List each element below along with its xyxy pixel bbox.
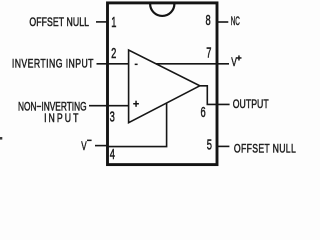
svg-text:NC: NC [231,15,240,29]
svg-text:V: V [81,140,87,154]
wire pin2 to inverting input [97,63,129,65]
svg-text:5: 5 [207,136,212,153]
svg-text:OFFSET NULL: OFFSET NULL [234,142,296,156]
svg-text:OFFSET NULL: OFFSET NULL [29,16,89,30]
crop artifact left edge [0,137,2,140]
wire output apex to pin6 [200,86,230,105]
wire pin4 V- to triangle bottom [107,103,167,147]
svg-text:8: 8 [206,12,211,29]
svg-text:2: 2 [111,45,116,62]
svg-text:OUTPUT: OUTPUT [233,97,269,111]
wire pin8 stub [216,21,228,23]
notch (index mark semicircle) [150,4,174,16]
svg-text:1: 1 [111,14,116,31]
IC body U1 (DIP-8 outline) [108,3,218,165]
inverting input marker (minus) [135,64,138,66]
svg-text:3: 3 [110,108,115,125]
svg-text:7: 7 [206,45,211,62]
non-inverting input marker (plus) [133,103,139,105]
svg-text:4: 4 [110,146,115,163]
svg-text:INVERTING INPUT: INVERTING INPUT [12,57,94,71]
wire pin4 stub outside [95,145,108,147]
svg-text:6: 6 [201,104,206,121]
wire pin7 V+ to triangle top [156,63,229,65]
op-amp U1 triangle [129,50,200,123]
wire pin1 stub [96,21,107,23]
wire pin3 to non-inverting input [89,105,129,107]
svg-text:INPUT: INPUT [44,111,79,125]
wire pin5 stub [216,145,229,147]
